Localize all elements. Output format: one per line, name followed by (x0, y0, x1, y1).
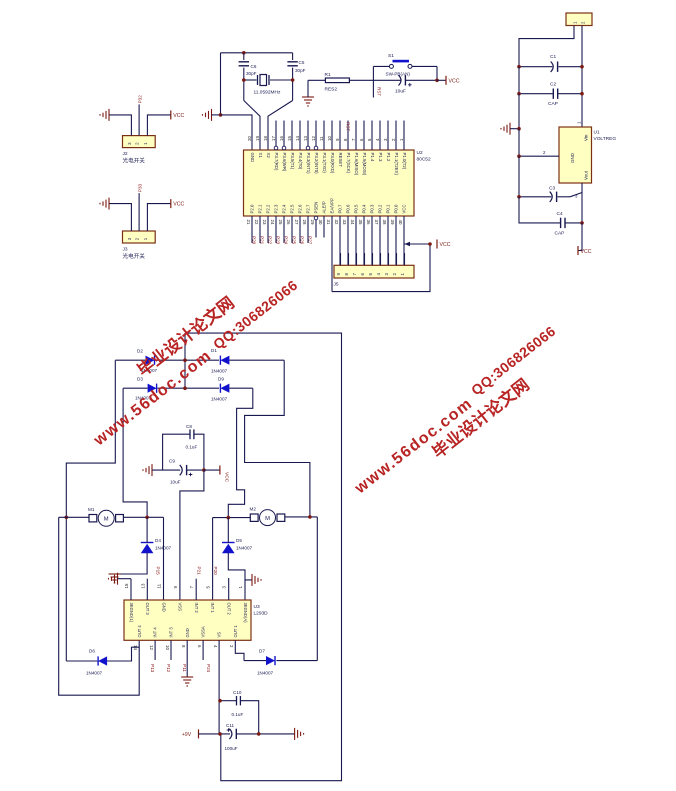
svg-text:GND: GND (570, 152, 575, 163)
wire J1 pin2 down to U1 Vin (581, 26, 583, 128)
wire pin40 VCC (405, 243, 431, 245)
svg-text:CAP: CAP (555, 231, 565, 237)
J5 pin 1 (404, 253, 406, 265)
svg-text:30: 30 (318, 220, 323, 225)
svg-text:RST: RST (346, 122, 351, 131)
svg-text:19: 19 (255, 136, 260, 141)
svg-text:P33: P33 (138, 183, 143, 192)
svg-text:C11: C11 (226, 723, 235, 728)
svg-text:Vin: Vin (584, 134, 589, 141)
diode D9 1N4007 (220, 384, 229, 393)
svg-text:P2.2: P2.2 (266, 204, 271, 213)
L293 pin 8 GND (186, 640, 188, 677)
svg-text:23: 23 (262, 220, 267, 225)
svg-text:3EGND(1): 3EGND(1) (129, 603, 134, 623)
svg-text:5: 5 (205, 586, 210, 589)
wire ground to GND pin 20 (221, 115, 253, 150)
svg-text:15: 15 (287, 136, 292, 141)
svg-text:P0.4: P0.4 (362, 204, 367, 213)
wire second row left to M1 right (123, 388, 147, 517)
svg-text:OUT 3: OUT 3 (145, 603, 150, 616)
svg-text:P25: P25 (292, 236, 297, 245)
svg-text:20: 20 (247, 136, 252, 141)
svg-text:RES2: RES2 (325, 87, 338, 93)
wire M2 right (285, 516, 318, 518)
L293 pin 15 3EGND(1) (130, 579, 132, 600)
svg-text:12: 12 (311, 136, 316, 141)
pin 7 P1.6(MISO) (355, 121, 357, 151)
pin 39 P0.0 (395, 216, 397, 265)
pin 34 P0.5 (355, 216, 357, 265)
wire D7 to M2 right rail (276, 660, 317, 662)
svg-text:J5: J5 (334, 282, 339, 288)
J5 pin 6 (364, 253, 366, 265)
capacitor C6 30pF (243, 53, 245, 60)
svg-text:CAP: CAP (548, 101, 558, 107)
connector J1 power input (566, 13, 592, 26)
capacitor C11 100uF (199, 733, 231, 735)
svg-text:33: 33 (342, 220, 347, 225)
svg-text:P13: P13 (150, 664, 155, 673)
svg-text:C3: C3 (549, 186, 555, 192)
svg-text:U1: U1 (594, 130, 600, 136)
svg-text:M1: M1 (88, 507, 95, 512)
ground R1 (302, 97, 314, 106)
crystal Y1 11.0592MHz (244, 79, 257, 81)
svg-text:VCC: VCC (449, 78, 460, 84)
J5 pin 5 (372, 253, 374, 265)
svg-text:D7: D7 (259, 649, 265, 654)
wire left rail to ground (220, 53, 222, 115)
svg-text:P24: P24 (284, 236, 289, 245)
svg-text:OUT 2: OUT 2 (227, 603, 232, 616)
svg-text:光电开关: 光电开关 (123, 157, 146, 165)
wire VCC node to L293 pin9 (180, 470, 204, 600)
svg-text:C5: C5 (299, 60, 305, 65)
wire second row right to M2 left (path B) (228, 388, 253, 517)
svg-text:9: 9 (173, 586, 178, 589)
svg-text:J2: J2 (123, 151, 128, 157)
svg-text:VCC: VCC (402, 204, 407, 213)
wire J3 pin3 to ground (109, 204, 131, 231)
svg-text:36: 36 (366, 220, 371, 225)
wire S1 right to VCC node (436, 66, 438, 80)
svg-text:P1.2: P1.2 (386, 153, 391, 162)
pin 10 P3.0(RXD) (331, 121, 333, 151)
svg-text:D9: D9 (218, 377, 224, 382)
svg-text:P20: P20 (213, 567, 218, 576)
resistor R1 RES2 (325, 78, 349, 83)
pin 31 EA/VPP (331, 216, 333, 292)
diode D4 1N4007 (141, 542, 154, 544)
svg-text:P3.1(TXD): P3.1(TXD) (322, 153, 327, 174)
svg-text:1N4007: 1N4007 (155, 546, 172, 551)
pin 1 P1.0(T2) (403, 121, 405, 151)
wire top row right to M2 right (path A) (245, 360, 310, 517)
svg-text:P3.0(RXD): P3.0(RXD) (330, 153, 335, 174)
wire J1 pin1 to left rail (519, 26, 574, 67)
pin 14 P3.4(T0) (299, 121, 301, 151)
ground crystal left (203, 109, 212, 121)
capacitor C4 CAP (560, 218, 562, 228)
svg-text:P0.1: P0.1 (386, 204, 391, 213)
pin 38 P0.1 (387, 216, 389, 265)
capacitor C5 30pF (292, 53, 294, 60)
wire D6 to pin14 (107, 647, 139, 661)
diode D6 1N4007 (66, 660, 97, 662)
svg-text:30pF: 30pF (295, 68, 306, 73)
power VCC motor section (219, 466, 221, 475)
MCU U2 80C52 (244, 150, 415, 216)
power VCC J2 (170, 110, 172, 119)
wire top diode row (115, 359, 145, 361)
svg-text:VOLTREG: VOLTREG (594, 136, 617, 142)
svg-text:1N4007: 1N4007 (257, 671, 274, 676)
net label P32 (138, 104, 140, 135)
svg-text:D5: D5 (236, 538, 242, 543)
svg-text:M: M (104, 517, 109, 523)
svg-text:P3.2(INT0): P3.2(INT0) (314, 153, 319, 175)
pin 8 P1.7(SCK) (347, 121, 349, 151)
svg-text:21: 21 (246, 220, 251, 225)
svg-text:80C52: 80C52 (417, 157, 431, 163)
capacitor C10 0.1uF (220, 700, 236, 702)
svg-text:P21: P21 (260, 236, 265, 245)
L293 pin 10 INT 3 (170, 640, 172, 660)
svg-text:10: 10 (165, 645, 170, 650)
svg-text:J3: J3 (123, 247, 128, 253)
svg-text:18: 18 (263, 136, 268, 141)
svg-text:P2.5: P2.5 (290, 204, 295, 213)
wire C8 node to VCC (204, 469, 220, 471)
svg-text:27: 27 (294, 220, 299, 225)
svg-text:P12: P12 (166, 664, 171, 673)
svg-text:6: 6 (197, 645, 202, 648)
svg-text:P1.4: P1.4 (370, 153, 375, 162)
svg-text:C2: C2 (550, 82, 556, 88)
svg-text:P20: P20 (252, 236, 257, 245)
svg-text:40: 40 (398, 220, 403, 225)
diode D1 1N4007 (220, 356, 229, 365)
ground D4 (109, 574, 121, 583)
svg-text:P11: P11 (182, 664, 187, 672)
diode D3 1N4007 (148, 384, 157, 393)
connector J3 photoswitch (123, 231, 156, 243)
svg-text:P1.0(T2): P1.0(T2) (402, 153, 407, 170)
svg-text:D6: D6 (89, 649, 95, 654)
wire midpoint node to +9V rail (185, 333, 342, 781)
svg-text:31: 31 (326, 220, 331, 225)
L293 pin 6 VSSA (202, 640, 204, 660)
svg-text:0.1uF: 0.1uF (186, 445, 198, 450)
svg-text:39: 39 (390, 220, 395, 225)
svg-text:RST: RST (377, 87, 382, 96)
pin 11 P3.1(TXD) (323, 121, 325, 151)
wire second diode row (123, 387, 148, 389)
ground L293 pin8 (181, 677, 193, 686)
svg-text:P1.7(SCK): P1.7(SCK) (346, 153, 351, 174)
ground left of U1 (501, 123, 510, 135)
capacitor C7 10uF (399, 75, 402, 85)
pin 36 P0.3 (371, 216, 373, 265)
pin 33 P0.6 (347, 216, 349, 265)
wire D5 to ground (228, 553, 252, 580)
pin 5 P1.4 (371, 121, 373, 151)
wire left rail C3-C4 corner (519, 197, 560, 223)
svg-text:16: 16 (279, 136, 284, 141)
L293 pin 2 OUT 1 (235, 640, 244, 660)
svg-text:INT 2: INT 2 (194, 603, 199, 614)
voltage regulator U1 VOLTREG (559, 127, 592, 183)
svg-text:INT 4: INT 4 (153, 627, 158, 638)
svg-text:U3: U3 (254, 604, 260, 610)
svg-text:24: 24 (270, 220, 275, 225)
wire J2 pin3 to ground (109, 115, 131, 136)
svg-text:P3.5(T1): P3.5(T1) (290, 153, 295, 170)
pin 2 P1.1(T2EX) (395, 121, 397, 151)
svg-text:17: 17 (271, 136, 276, 141)
svg-text:25: 25 (278, 220, 283, 225)
svg-text:C10: C10 (233, 690, 242, 695)
pin 13 P3.3(INT1) (307, 121, 309, 147)
svg-text:X2: X2 (266, 153, 271, 159)
L293 pin 7 INT 2 (195, 579, 197, 600)
svg-text:P32: P32 (138, 95, 143, 104)
connector J5 (334, 265, 414, 278)
pin 12 P3.2(INT0) (315, 121, 317, 147)
wire D4 to ground (115, 553, 148, 574)
wire left rail GND-C3 (518, 156, 520, 197)
pin 28 P2.7 (307, 216, 309, 243)
svg-text:L293D: L293D (254, 611, 269, 617)
wire diagonal C3 to Vout rail (570, 193, 582, 197)
wire X2 funnel (268, 101, 293, 151)
svg-text:C8: C8 (186, 424, 192, 429)
svg-text:GND: GND (250, 153, 255, 163)
svg-text:C1: C1 (550, 54, 556, 60)
svg-text:37: 37 (374, 220, 379, 225)
svg-text:P26: P26 (300, 236, 305, 245)
svg-text:P3.6(WR): P3.6(WR) (282, 153, 287, 172)
J5 pin 3 (388, 253, 390, 265)
svg-text:12: 12 (149, 645, 154, 650)
svg-text:1N4007: 1N4007 (86, 671, 103, 676)
wire M1 right (123, 516, 163, 518)
diode D7 1N4007 (244, 660, 266, 662)
J5 pin 2 (396, 253, 398, 265)
wire M2 left to L293 pin5 (212, 518, 214, 600)
svg-text:P0.5: P0.5 (354, 204, 359, 213)
wire Vout rail to VCC (578, 223, 582, 251)
svg-text:1: 1 (238, 586, 243, 589)
svg-text:P3.3(INT1): P3.3(INT1) (306, 153, 311, 175)
svg-text:C4: C4 (557, 211, 563, 217)
wire J2 pin1 to VCC (147, 115, 170, 136)
wire M1 left to L293 pin14 loop (59, 517, 140, 695)
power VCC J3 (170, 199, 172, 208)
svg-text:22: 22 (254, 220, 259, 225)
switch S1 SW-PB (373, 65, 389, 67)
pin 37 P0.2 (379, 216, 381, 265)
svg-text:P23: P23 (276, 236, 281, 245)
svg-text:P22: P22 (268, 236, 273, 245)
svg-text:P2.7: P2.7 (306, 204, 311, 213)
svg-text:2: 2 (543, 150, 546, 155)
svg-text:VCC: VCC (173, 202, 184, 208)
svg-text:INT 1: INT 1 (210, 603, 215, 614)
svg-text:P1.3: P1.3 (378, 153, 383, 162)
wire R1 to reset node (349, 79, 401, 81)
motor M2 (250, 514, 258, 521)
L293 pin 13 OUT 3 (146, 579, 148, 600)
diode D2 1N4007 (146, 356, 155, 365)
svg-text:8: 8 (181, 645, 186, 648)
pin 15 P3.5(T1) (291, 121, 293, 151)
pin 2 wire U1 GND to rail (519, 155, 559, 157)
svg-text:P0.2: P0.2 (378, 204, 383, 213)
svg-text:P1.6(MISO): P1.6(MISO) (354, 153, 359, 176)
wire pin1 stub (244, 580, 246, 600)
svg-text:X1: X1 (258, 153, 263, 159)
motor M1 (89, 515, 97, 522)
ground bottom right (295, 728, 304, 740)
wire pin3 stub M2 left branch (228, 578, 230, 600)
svg-text:1N4007: 1N4007 (211, 369, 228, 374)
pin 24 P2.3 (275, 216, 277, 243)
wire top row left to M1 left (66, 360, 115, 661)
svg-text:35: 35 (358, 220, 363, 225)
pin 22 P2.1 (259, 216, 261, 243)
wire M1 right to L293 pin11 (163, 517, 165, 600)
svg-text:P0.0: P0.0 (394, 204, 399, 213)
svg-text:VCC: VCC (224, 472, 230, 483)
J5 pin 8 (348, 253, 350, 265)
svg-text:13: 13 (303, 136, 308, 141)
wire left rail C1-C2 (518, 67, 520, 94)
svg-text:INT 3: INT 3 (169, 627, 174, 638)
svg-text:32: 32 (334, 220, 339, 225)
svg-text:VSSA: VSSA (201, 626, 206, 637)
capacitor C1 (519, 66, 552, 68)
capacitor C8 0.1uF (163, 434, 190, 470)
svg-text:U2: U2 (417, 150, 423, 156)
svg-text:GND: GND (185, 628, 190, 637)
pin 4 P1.3 (379, 121, 381, 151)
svg-text:VCC: VCC (440, 242, 451, 248)
wire J3 pin1 to VCC (147, 204, 170, 231)
pin 30 ALE/P (323, 216, 325, 238)
pin 35 P0.4 (363, 216, 365, 265)
ground C9 (143, 464, 152, 476)
svg-text:光电开关: 光电开关 (123, 252, 146, 260)
svg-text:7: 7 (189, 586, 194, 589)
pin 27 P2.6 (299, 216, 301, 243)
pin 6 P1.5(MOSI) (363, 121, 365, 151)
power VCC mcu (436, 240, 438, 249)
wire ground to R1 (308, 79, 325, 81)
pin 16 P3.6(WR) (283, 121, 285, 147)
svg-text:OUT 1: OUT 1 (233, 625, 238, 638)
svg-text:11.0592MHz: 11.0592MHz (254, 90, 281, 96)
svg-text:P15: P15 (156, 567, 161, 576)
svg-text:11: 11 (157, 583, 162, 588)
svg-text:P3.4(T0): P3.4(T0) (298, 153, 303, 170)
capacitor C3 (519, 196, 551, 198)
J5 pin 4 (380, 253, 382, 265)
svg-text:100uF: 100uF (225, 746, 238, 751)
power VCC reset (445, 76, 447, 85)
svg-text:15: 15 (124, 583, 129, 588)
svg-text:SW-PB(AN): SW-PB(AN) (386, 72, 411, 77)
svg-text:Vout: Vout (584, 170, 589, 180)
pin 32 P0.7 (339, 216, 341, 265)
svg-text:M: M (265, 516, 270, 522)
svg-text:10uF: 10uF (170, 480, 181, 485)
J5 pin 9 (340, 253, 342, 265)
svg-text:VCC: VCC (173, 113, 184, 119)
wire M2 right to D7 (316, 517, 318, 661)
svg-text:10: 10 (327, 136, 332, 141)
pin 26 P2.5 (291, 216, 293, 243)
net label P33 (138, 193, 140, 231)
svg-text:P0.3: P0.3 (370, 204, 375, 213)
ground J2 (100, 109, 109, 121)
svg-text:P27: P27 (308, 236, 313, 245)
J5 pin 7 (356, 253, 358, 265)
wire M1 left (59, 516, 89, 518)
svg-text:10uF: 10uF (395, 89, 406, 95)
ground L293 left (109, 573, 118, 585)
connector J2 photoswitch (123, 136, 156, 148)
pin 3 P1.2 (387, 121, 389, 151)
svg-text:P2.4: P2.4 (282, 204, 287, 213)
ground J3 (100, 198, 109, 210)
pin 25 P2.4 (283, 216, 285, 243)
svg-text:VCC: VCC (581, 249, 592, 255)
svg-text:P2.3: P2.3 (274, 204, 279, 213)
svg-text:C9: C9 (169, 459, 175, 464)
diode D5 1N4007 (222, 542, 235, 544)
pin 23 P2.2 (267, 216, 269, 243)
wire EA loop to VCC (332, 244, 430, 292)
svg-text:29: 29 (310, 220, 315, 225)
svg-text:ALE/P: ALE/P (322, 201, 327, 213)
ground D5 (252, 574, 261, 586)
svg-text:26: 26 (286, 220, 291, 225)
svg-text:OUT 4: OUT 4 (137, 625, 142, 638)
svg-text:P0.6: P0.6 (346, 204, 351, 213)
svg-text:VSS: VSS (178, 603, 183, 612)
capacitor C9 10uF (152, 469, 180, 471)
power VCC bottom right (577, 246, 579, 255)
svg-text:3EGND(A): 3EGND(A) (243, 603, 248, 624)
pin 29 PSEN (314, 216, 318, 220)
svg-text:0.1uF: 0.1uF (232, 712, 244, 717)
svg-text:EA/VPP: EA/VPP (330, 198, 335, 214)
pin 21 P2.0 (251, 216, 253, 243)
svg-text:P0.7: P0.7 (338, 204, 343, 213)
pin 3 wire U1 Vout (581, 183, 583, 193)
net label RST reset node (372, 66, 374, 97)
svg-text:2: 2 (229, 645, 234, 648)
pin 9 RESET (339, 121, 341, 151)
svg-text:4: 4 (213, 645, 218, 648)
svg-text:1N4007: 1N4007 (236, 546, 253, 551)
svg-text:30pF: 30pF (246, 71, 257, 76)
svg-text:11: 11 (319, 136, 324, 141)
svg-text:P2.0: P2.0 (250, 204, 255, 213)
svg-text:RESET: RESET (338, 153, 343, 168)
